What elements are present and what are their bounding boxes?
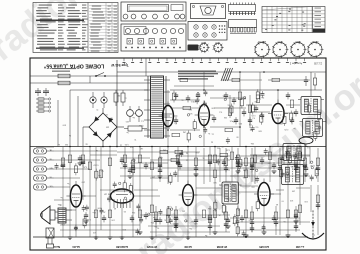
svg-text:15k: 15k: [316, 172, 319, 174]
thermistor R1: [114, 90, 118, 106]
svg-text:ECC85: ECC85: [259, 245, 269, 249]
parts list table (top-left): [33, 3, 118, 53]
svg-text:15k: 15k: [160, 156, 163, 158]
svg-text:25k: 25k: [250, 128, 253, 130]
svg-text:2M: 2M: [65, 143, 68, 145]
IF transformer Fi3: [219, 182, 242, 204]
svg-text:15k: 15k: [261, 96, 264, 98]
tube EF89 IF amp: [195, 101, 214, 126]
svg-text:2k: 2k: [164, 218, 166, 220]
bottom tube name labels: [53, 245, 304, 249]
svg-text:15k: 15k: [243, 176, 246, 178]
chassis top view box 1: [121, 2, 186, 21]
selenium bridge rectifier Gr1: [83, 108, 124, 147]
svg-text:25k: 25k: [182, 210, 185, 212]
svg-text:EABC80: EABC80: [116, 245, 128, 249]
IF transformer Fi5: [279, 165, 307, 185]
misc small capacitors and stubs: [55, 89, 321, 237]
note text block: [178, 71, 218, 80]
svg-text:5n: 5n: [233, 185, 235, 187]
svg-text:0,047: 0,047: [309, 164, 315, 166]
svg-text:2k: 2k: [186, 152, 188, 154]
svg-text:21.1.55: 21.1.55: [313, 62, 322, 65]
svg-text:W 2008: W 2008: [217, 245, 228, 249]
svg-text:2M: 2M: [183, 131, 186, 133]
tube socket wiring box: [188, 22, 227, 41]
dark nameplate chip: [188, 45, 199, 51]
svg-text:0,047: 0,047: [85, 218, 91, 220]
svg-text:5n: 5n: [126, 131, 128, 133]
svg-text:5n: 5n: [60, 196, 62, 198]
svg-text:Netz: Netz: [53, 245, 60, 249]
output transformer Tr2: [55, 208, 72, 223]
electrolytic capacitor C3: [127, 106, 137, 122]
svg-text:15k: 15k: [58, 203, 61, 205]
pilot lamp La1: [90, 92, 96, 108]
svg-text:25k: 25k: [232, 189, 235, 191]
tube socket diagram EL84: [272, 40, 289, 58]
electrolytic capacitor C4: [136, 106, 143, 122]
heater wiring: [58, 90, 148, 147]
svg-text:8n: 8n: [110, 117, 112, 119]
svg-text:5k: 5k: [69, 134, 71, 136]
svg-text:1k: 1k: [238, 208, 240, 210]
svg-text:15k: 15k: [226, 197, 229, 199]
wire mesh horizontal runs: [36, 80, 310, 232]
chassis top view box 2: [121, 24, 186, 51]
tube socket diagram FM2: [199, 41, 210, 53]
terminal tick row along top border: [123, 58, 307, 63]
svg-text:2M: 2M: [117, 94, 120, 96]
terminal strip connector 1: [229, 3, 256, 16]
wire top right: [300, 89, 322, 91]
fuse Si2: [58, 81, 70, 85]
magic eye EM80 target: [299, 137, 313, 147]
tube EL84 output: [66, 181, 85, 207]
svg-text:5n: 5n: [293, 127, 295, 129]
svg-text:8n: 8n: [205, 234, 207, 236]
svg-text:ECH81: ECH81: [311, 40, 319, 42]
svg-text:1k: 1k: [96, 149, 98, 151]
svg-text:10n: 10n: [169, 181, 172, 183]
tube socket diagram EABC80: [254, 40, 271, 58]
svg-text:25k: 25k: [61, 223, 64, 225]
svg-text:5k: 5k: [130, 200, 132, 202]
component value labels: [58, 94, 319, 236]
capacitor C2: [43, 88, 49, 96]
svg-text:EABC80: EABC80: [257, 40, 266, 43]
wire vertical divider: [145, 58, 147, 76]
svg-text:EF89: EF89: [295, 40, 301, 42]
svg-text:2k: 2k: [103, 210, 105, 212]
tube socket diagram ECH81: [307, 40, 324, 58]
tube EF89 b: [179, 181, 198, 206]
IF transformer Fi1: [298, 97, 324, 115]
capacitor C40: [304, 76, 308, 86]
svg-text:10n: 10n: [232, 120, 235, 122]
chassis rail (horizontal bottom): [33, 236, 308, 238]
tube socket diagram U22: [213, 41, 224, 53]
svg-text:1M: 1M: [312, 234, 315, 236]
dial cord diagonal marks: [221, 68, 233, 81]
svg-text:8n: 8n: [85, 143, 87, 145]
svg-text:1k: 1k: [186, 159, 188, 161]
svg-text:25k: 25k: [208, 207, 211, 209]
resistors (scattered): [61, 78, 319, 222]
svg-text:5k: 5k: [223, 94, 225, 96]
svg-text:1M: 1M: [243, 168, 246, 170]
AVC rail: [117, 71, 326, 73]
tube ECH81 mixer: [268, 100, 288, 124]
svg-text:5k: 5k: [181, 98, 183, 100]
svg-text:Type 541 W: Type 541 W: [111, 63, 128, 67]
svg-text:2k: 2k: [218, 213, 220, 215]
DIN socket TB: [34, 157, 55, 163]
tube EABC80 (horizontal envelope): [111, 189, 134, 208]
resistor R40: [313, 73, 316, 90]
svg-text:2M: 2M: [249, 123, 252, 125]
svg-text:25k: 25k: [251, 142, 254, 144]
svg-text:1k: 1k: [212, 132, 214, 134]
voltage selector links: [36, 98, 51, 112]
tube ECC85 FM front end: [254, 179, 274, 206]
svg-text:25k: 25k: [154, 225, 157, 227]
svg-text:2M: 2M: [224, 116, 227, 118]
DIN socket UK: [34, 184, 55, 190]
DIN socket MS: [34, 166, 55, 172]
svg-text:5n: 5n: [67, 182, 69, 184]
svg-text:EL84: EL84: [72, 245, 80, 249]
svg-text:0,047: 0,047: [138, 124, 144, 126]
IF transformer Fi2: [300, 119, 326, 137]
svg-text:15k: 15k: [217, 146, 220, 148]
fuse Si1: [58, 74, 70, 78]
wire mesh vertical runs: [63, 72, 318, 237]
capacitors (scattered): [61, 92, 320, 232]
svg-text:0,047: 0,047: [190, 220, 196, 222]
svg-text:0,047: 0,047: [166, 205, 172, 207]
antenna symbol: [302, 210, 324, 239]
svg-text:5n: 5n: [58, 143, 60, 145]
svg-text:5n: 5n: [230, 188, 232, 190]
svg-text:5k: 5k: [202, 157, 204, 159]
capacitor C1: [35, 88, 41, 96]
DIN socket TS: [34, 175, 55, 181]
mains plug and fuse at bottom border: [46, 228, 54, 248]
tube socket diagram EF89: [290, 40, 307, 58]
svg-text:EF89: EF89: [184, 245, 192, 249]
speaker rear-view box: [191, 4, 226, 19]
svg-text:8n: 8n: [153, 216, 155, 218]
svg-text:8n: 8n: [98, 174, 100, 176]
screen rail: [170, 89, 300, 91]
B+ rail (horizontal): [30, 146, 326, 148]
svg-text:2M: 2M: [106, 125, 109, 127]
svg-text:25k: 25k: [189, 227, 192, 229]
DIN socket TA: [34, 148, 55, 154]
IF transformer Fi4: [280, 144, 308, 161]
svg-text:EL84: EL84: [277, 40, 283, 42]
loudspeaker: [41, 206, 56, 224]
svg-text:a+130: a+130: [295, 245, 304, 249]
svg-text:8n: 8n: [227, 103, 229, 105]
wire vertical main left: [116, 60, 118, 147]
svg-text:5k: 5k: [211, 140, 213, 142]
choke Dr1: [124, 126, 147, 131]
svg-text:1k: 1k: [283, 220, 285, 222]
svg-text:2k: 2k: [291, 165, 293, 167]
svg-text:1M: 1M: [140, 147, 143, 149]
svg-text:15k: 15k: [132, 211, 135, 213]
svg-text:1M: 1M: [104, 193, 107, 195]
svg-text:0,047: 0,047: [93, 164, 99, 166]
mains label text: [52, 68, 76, 72]
svg-text:10n: 10n: [251, 185, 254, 187]
resistor R2: [121, 90, 125, 106]
svg-text:1k: 1k: [208, 132, 210, 134]
ground symbols: [68, 163, 309, 240]
svg-text:2M: 2M: [163, 149, 166, 151]
pilot lamp La2: [101, 92, 107, 108]
tube EC92 triode: [159, 102, 178, 127]
svg-text:8n: 8n: [132, 116, 134, 118]
terminal strip connector 2: [229, 20, 257, 34]
power transformer Tr1: [144, 76, 170, 138]
svg-text:LOEWE OPTA „Luna 55“: LOEWE OPTA „Luna 55“: [43, 63, 104, 69]
mains input wires: [30, 76, 150, 83]
svg-text:W 5025: W 5025: [147, 245, 158, 249]
svg-text:10n: 10n: [93, 211, 96, 213]
svg-text:1k: 1k: [124, 97, 126, 99]
schematic border frame: [30, 58, 326, 250]
alignment grid table: [262, 7, 325, 33]
mains switch S1: [95, 73, 106, 77]
svg-text:1k: 1k: [246, 234, 248, 236]
svg-text:1k: 1k: [120, 143, 122, 145]
svg-text:25k: 25k: [151, 221, 154, 223]
